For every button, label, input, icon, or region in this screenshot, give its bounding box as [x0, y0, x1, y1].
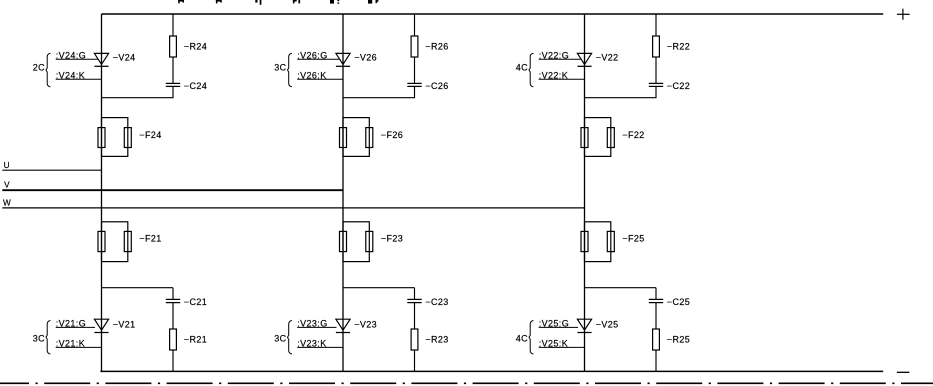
svg-text::V21:K: :V21:K: [56, 339, 85, 349]
chain boundary line: [0, 382, 933, 384]
wire phase V: [2, 189, 343, 191]
wire junction to C25: [655, 288, 657, 300]
svg-text:−R23: −R23: [425, 335, 448, 345]
fuse F25: [581, 222, 614, 262]
capacitor C21: [166, 299, 180, 302]
wire cathode lead V21:K: [56, 346, 102, 348]
wire snubber feed V21: [102, 287, 174, 289]
svg-text:−F24: −F24: [139, 130, 161, 140]
svg-text:2C: 2C: [33, 63, 45, 73]
svg-text:V: V: [4, 180, 10, 189]
wire cathode lead V22:K: [539, 78, 585, 80]
capacitor C25: [649, 299, 663, 302]
resistor R26: [411, 36, 418, 57]
wire snubber return V26: [343, 97, 415, 99]
brace for 3C: [288, 53, 292, 87]
capacitor C23: [407, 299, 421, 302]
svg-text:−C21: −C21: [184, 297, 207, 307]
resistor R23: [411, 329, 418, 350]
svg-text:−C26: −C26: [425, 81, 448, 91]
wire bridge leg 1: [101, 14, 103, 371]
svg-text:4C: 4C: [516, 63, 528, 73]
wire junction to C23: [414, 288, 416, 300]
wire gate lead V25:G: [539, 326, 578, 328]
capacitor C24: [166, 83, 180, 86]
wire R24 to C24: [172, 57, 174, 83]
wire gate lead V22:G: [539, 58, 581, 60]
resistor R24: [170, 36, 177, 57]
wire rail to R22: [655, 14, 657, 37]
wire R22 to C22: [655, 57, 657, 83]
fuse F26: [340, 118, 373, 157]
capacitor C22: [649, 83, 663, 86]
fuse F21: [98, 222, 131, 262]
wire gate lead V24:G: [56, 58, 98, 60]
brace for 4C: [529, 321, 533, 355]
wire cathode lead V23:K: [297, 346, 343, 348]
wire phase W: [2, 207, 584, 209]
svg-text:−V24: −V24: [113, 52, 136, 62]
capacitor C26: [407, 83, 421, 86]
thyristor V21: [94, 319, 108, 332]
cut-off text fragment 6: [368, 0, 378, 4]
svg-text::V26:K: :V26:K: [297, 71, 326, 81]
svg-text:−R26: −R26: [425, 42, 448, 52]
cut-off text fragment 3: [255, 0, 261, 5]
svg-text:−F21: −F21: [139, 233, 161, 243]
wire snubber return V22: [585, 97, 657, 99]
wire gate lead V23:G: [297, 326, 336, 328]
svg-text:−F25: −F25: [622, 233, 644, 243]
+ terminal: [897, 9, 910, 20]
svg-text:U: U: [4, 161, 10, 170]
wire C25 to R25: [655, 303, 657, 329]
wire C23 to R23: [414, 303, 416, 329]
thyristor V22: [577, 53, 591, 66]
cut-off text fragment 5: [330, 0, 339, 4]
svg-text::V24:K: :V24:K: [56, 71, 85, 81]
svg-text::V24:G: :V24:G: [56, 51, 86, 61]
thyristor V26: [336, 53, 350, 66]
svg-text:−R25: −R25: [667, 335, 690, 345]
svg-text::V25:K: :V25:K: [539, 339, 568, 349]
svg-text:−R22: −R22: [667, 42, 690, 52]
svg-text:−F26: −F26: [381, 130, 403, 140]
svg-text:−C23: −C23: [425, 297, 448, 307]
wire junction to C21: [172, 288, 174, 300]
thyristor V23: [336, 319, 350, 332]
svg-text:4C: 4C: [516, 334, 528, 344]
wire cathode lead V24:K: [56, 78, 102, 80]
thyristor V25: [577, 319, 591, 332]
svg-text:−V26: −V26: [354, 52, 377, 62]
resistor R21: [170, 329, 177, 350]
resistor R22: [653, 36, 660, 57]
wire rail to R26: [414, 14, 416, 37]
resistor R25: [653, 329, 660, 350]
brace for 2C: [46, 53, 50, 87]
svg-text:3C: 3C: [274, 63, 286, 73]
wire R25 to rail: [655, 350, 657, 371]
wire C21 to R21: [172, 303, 174, 329]
svg-text:−C25: −C25: [667, 297, 690, 307]
wire snubber feed V23: [343, 287, 415, 289]
wire snubber feed V25: [585, 287, 657, 289]
brace for 3C: [46, 321, 50, 355]
svg-text:−R24: −R24: [184, 42, 207, 52]
brace for 3C: [288, 321, 292, 355]
wire bridge leg 2: [342, 14, 344, 371]
top DC rail wire: [102, 13, 884, 15]
svg-text:−F22: −F22: [622, 130, 644, 140]
svg-text::V23:G: :V23:G: [297, 319, 327, 329]
wire C26 to junction: [414, 86, 416, 98]
svg-text:−C24: −C24: [184, 81, 207, 91]
svg-text:−V25: −V25: [596, 319, 619, 329]
svg-text:−V22: −V22: [596, 52, 619, 62]
cut-off text fragment 1: [178, 0, 184, 3]
svg-text:3C: 3C: [274, 334, 286, 344]
thyristor V24: [94, 53, 108, 66]
bottom DC rail wire: [100, 370, 883, 372]
wire C24 to junction: [172, 86, 174, 98]
svg-text:−V23: −V23: [354, 319, 377, 329]
wire gate lead V21:G: [56, 326, 95, 328]
wire phase U: [2, 169, 101, 171]
wire R26 to C26: [414, 57, 416, 83]
wire R23 to rail: [414, 350, 416, 371]
wire cathode lead V25:K: [539, 346, 585, 348]
wire snubber return V24: [102, 97, 174, 99]
wire gate lead V26:G: [297, 58, 339, 60]
svg-text:−C22: −C22: [667, 81, 690, 91]
wire rail to R24: [172, 14, 174, 37]
svg-text::V22:G: :V22:G: [539, 51, 569, 61]
wire bridge leg 3: [584, 14, 586, 371]
svg-text::V21:G: :V21:G: [56, 319, 86, 329]
brace for 4C: [529, 53, 533, 87]
fuse F22: [581, 118, 614, 157]
svg-text:−F23: −F23: [381, 233, 403, 243]
svg-text:W: W: [3, 199, 11, 208]
svg-text::V23:K: :V23:K: [297, 339, 326, 349]
svg-text:3C: 3C: [33, 334, 45, 344]
wire cathode lead V26:K: [297, 78, 343, 80]
svg-text::V25:G: :V25:G: [539, 319, 569, 329]
svg-text:−R21: −R21: [184, 335, 207, 345]
cut-off text fragment 2: [216, 0, 222, 3]
fuse F23: [340, 222, 373, 262]
svg-text:−V21: −V21: [113, 319, 136, 329]
svg-text::V26:G: :V26:G: [297, 51, 327, 61]
cut-off text fragment 4: [293, 0, 300, 3]
wire C22 to junction: [655, 86, 657, 98]
svg-text::V22:K: :V22:K: [539, 71, 568, 81]
- terminal: [897, 371, 909, 373]
fuse F24: [98, 118, 131, 157]
wire R21 to rail: [172, 350, 174, 371]
